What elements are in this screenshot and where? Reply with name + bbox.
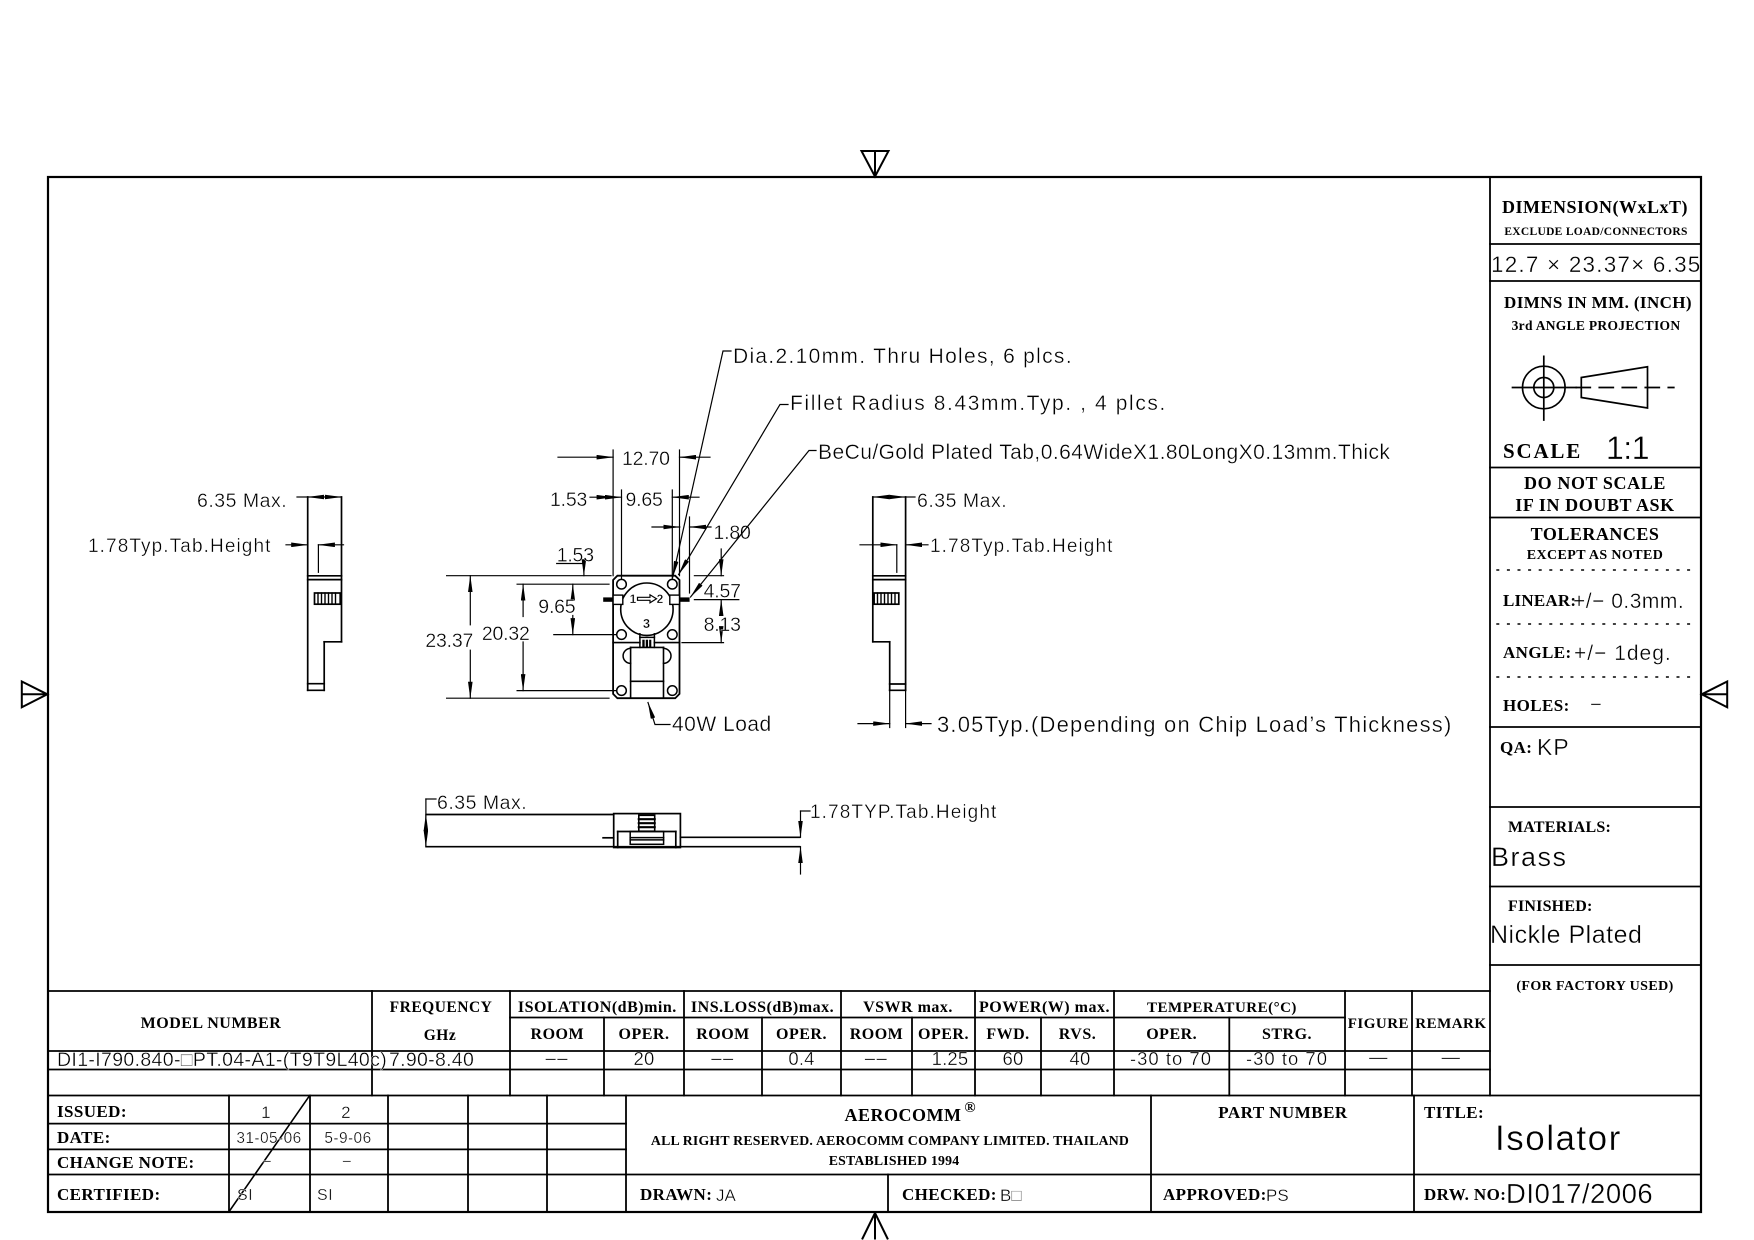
svg-text:INS.LOSS(dB)max.: INS.LOSS(dB)max. — [691, 999, 834, 1016]
svg-text:5-9-06: 5-9-06 — [324, 1130, 371, 1147]
leader 40W load — [648, 703, 670, 725]
mounting hole bottom-left — [617, 686, 627, 696]
dim 1.53 elbow — [557, 564, 584, 576]
svg-text:PART NUMBER: PART NUMBER — [1218, 1103, 1348, 1122]
materials row — [1491, 819, 1611, 872]
left view body outline — [308, 497, 342, 690]
svg-text:Nickle Plated: Nickle Plated — [1490, 921, 1642, 949]
bottom view chip stack — [630, 832, 663, 845]
svg-text:1.78TYP.Tab.Height: 1.78TYP.Tab.Height — [810, 802, 997, 823]
svg-text:ROOM: ROOM — [696, 1026, 750, 1043]
svg-text:7.90-8.40: 7.90-8.40 — [389, 1049, 474, 1071]
svg-text:ESTABLISHED 1994: ESTABLISHED 1994 — [829, 1153, 960, 1168]
part number / title texts — [1163, 1103, 1653, 1209]
ext lines above front view — [613, 450, 689, 593]
spec table grid — [48, 991, 1490, 1096]
load plate right ear fillet — [664, 648, 672, 663]
svg-text:SI: SI — [317, 1187, 333, 1204]
3rd angle projection symbol — [1513, 356, 1674, 420]
svg-text:AEROCOMM: AEROCOMM — [845, 1105, 962, 1125]
dim 20.32 — [522, 584, 524, 690]
svg-text:1.78Typ.Tab.Height: 1.78Typ.Tab.Height — [88, 536, 272, 557]
svg-text:Dia.2.10mm. Thru Holes, 6: Dia.2.10mm. Thru Holes, 6 plcs. — [733, 345, 1073, 368]
svg-text:1.53: 1.53 — [557, 545, 594, 567]
svg-text:IF IN DOUBT ASK: IF IN DOUBT ASK — [1515, 495, 1675, 515]
svg-text:OPER.: OPER. — [918, 1026, 969, 1043]
dim 1.53 / 9.65 top chain — [590, 496, 699, 498]
svg-text:STRG.: STRG. — [1262, 1026, 1312, 1043]
svg-text:APPROVED:: APPROVED: — [1163, 1185, 1267, 1204]
mounting hole mid-right — [668, 630, 678, 640]
svg-text:LINEAR:: LINEAR: — [1503, 591, 1576, 610]
bottom view dim 1.78 tab height — [801, 811, 811, 874]
svg-text:DIMENSION(WxLxT): DIMENSION(WxLxT) — [1502, 197, 1688, 218]
bottom view body lines — [426, 814, 799, 848]
svg-text:2: 2 — [657, 592, 664, 606]
right view chip load extension lines — [890, 690, 906, 727]
tolerances block — [1497, 524, 1697, 716]
finished row — [1490, 898, 1642, 949]
load plate left ear fillet — [623, 648, 630, 663]
svg-text:−: − — [1590, 694, 1602, 716]
right view body outline — [873, 497, 906, 690]
svg-text:23.37: 23.37 — [425, 630, 473, 652]
svg-text:9.65: 9.65 — [626, 489, 664, 511]
svg-text:EXCLUDE LOAD/CONNECTORS: EXCLUDE LOAD/CONNECTORS — [1504, 226, 1687, 238]
left ext lines of front view — [447, 576, 616, 699]
body mid line — [613, 642, 679, 644]
svg-text:3.05Typ.(Depending on Chip: 3.05Typ.(Depending on Chip Load’s Thickn… — [937, 712, 1453, 737]
svg-text:MATERIALS:: MATERIALS: — [1508, 819, 1611, 836]
svg-text:1.53: 1.53 — [550, 489, 587, 511]
svg-text:1.25: 1.25 — [932, 1048, 969, 1069]
mounting hole bottom-right — [668, 686, 678, 696]
svg-text:KP: KP — [1537, 734, 1570, 760]
load neck — [640, 634, 655, 648]
svg-text:Brass: Brass — [1491, 842, 1568, 872]
svg-text:BeCu/Gold Plated Tab,0.64WideX: BeCu/Gold Plated Tab,0.64WideX1.80LongX0… — [818, 441, 1390, 464]
mounting hole top-right — [668, 579, 678, 589]
svg-text:TITLE:: TITLE: — [1424, 1103, 1484, 1122]
svg-text:12.70: 12.70 — [622, 448, 670, 470]
svg-text:REMARK: REMARK — [1415, 1016, 1486, 1032]
svg-text:12.7 × 23.37× 6.35: 12.7 × 23.37× 6.35 — [1491, 252, 1702, 277]
svg-text:—: — — [1442, 1046, 1461, 1067]
port labels 1 2 3 with arrow — [630, 592, 664, 631]
load tab black — [642, 640, 651, 648]
svg-text:-30 to 70: -30 to 70 — [1246, 1048, 1328, 1069]
svg-text:3: 3 — [643, 616, 650, 631]
leader BeCu gold plated tab — [691, 451, 817, 598]
svg-text:(FOR FACTORY USED): (FOR FACTORY USED) — [1516, 979, 1673, 994]
right BeCu tab — [680, 597, 690, 601]
QA row — [1500, 734, 1570, 760]
dim 9.65 vertical — [572, 584, 574, 634]
svg-text:ANGLE:: ANGLE: — [1503, 643, 1572, 662]
svg-text:SCALE: SCALE — [1503, 439, 1582, 463]
dim 8.13 — [720, 633, 722, 643]
junction circle — [621, 583, 673, 635]
centering mark bottom — [863, 1213, 888, 1239]
load plate — [631, 647, 664, 698]
centering mark top — [862, 151, 889, 177]
svg-text:DI1-I790.840-□PT.04-A1-(T9T9L4: DI1-I790.840-□PT.04-A1-(T9T9L40c) — [57, 1049, 387, 1071]
sheet border frame — [48, 177, 1701, 1212]
left tab pocket — [613, 595, 623, 604]
bottom view dim 6.35 Max — [426, 799, 436, 847]
svg-text:20: 20 — [634, 1048, 655, 1069]
right view tab hatch — [874, 593, 899, 604]
svg-text:DI017/2006: DI017/2006 — [1506, 1178, 1653, 1209]
svg-text:OPER.: OPER. — [776, 1026, 827, 1043]
svg-text:––: –– — [546, 1047, 570, 1068]
revision diagonal — [230, 1097, 310, 1212]
svg-text:—: — — [1369, 1046, 1388, 1067]
dim 23.37 — [469, 576, 471, 699]
svg-text:TEMPERATURE(°C): TEMPERATURE(°C) — [1147, 1000, 1297, 1016]
svg-text:––: –– — [865, 1047, 889, 1068]
svg-text:40: 40 — [1070, 1048, 1091, 1069]
centering mark left — [22, 682, 48, 708]
svg-text:HOLES:: HOLES: — [1503, 696, 1570, 715]
svg-text:3rd ANGLE PROJECTION: 3rd ANGLE PROJECTION — [1512, 318, 1681, 333]
svg-text:MODEL NUMBER: MODEL NUMBER — [141, 1015, 282, 1032]
svg-text:––: –– — [711, 1047, 735, 1068]
svg-text:DATE:: DATE: — [57, 1128, 111, 1147]
svg-text:6.35 Max.: 6.35 Max. — [917, 490, 1007, 512]
svg-text:-30 to 70: -30 to 70 — [1130, 1048, 1212, 1069]
svg-text:20.32: 20.32 — [482, 623, 530, 645]
right ext lines 4.57 / 8.13 — [682, 576, 739, 643]
svg-text:8.13: 8.13 — [704, 614, 741, 636]
svg-text:−: − — [262, 1152, 272, 1171]
svg-text:®: ® — [964, 1100, 975, 1116]
svg-text:ALL RIGHT RESERVED. AEROCOM: ALL RIGHT RESERVED. AEROCOMM COMPANY LIM… — [651, 1133, 1129, 1148]
leader fillet radius — [679, 405, 788, 575]
svg-text:Isolator: Isolator — [1495, 1119, 1622, 1158]
svg-text:DIMNS IN MM. (INCH): DIMNS IN MM. (INCH) — [1504, 293, 1692, 312]
svg-text:1: 1 — [630, 592, 637, 606]
svg-text:POWER(W) max.: POWER(W) max. — [979, 999, 1110, 1016]
svg-text:CERTIFIED:: CERTIFIED: — [57, 1185, 161, 1204]
bottom block grid — [48, 1096, 1701, 1213]
svg-text:FWD.: FWD. — [986, 1026, 1029, 1043]
svg-text:2: 2 — [341, 1103, 351, 1122]
svg-text:GHz: GHz — [424, 1027, 457, 1044]
svg-text:FIGURE: FIGURE — [1348, 1016, 1409, 1032]
svg-text:+/− 1deg.: +/− 1deg. — [1574, 642, 1672, 665]
svg-text:6.35 Max.: 6.35 Max. — [197, 490, 287, 512]
svg-text:FREQUENCY: FREQUENCY — [390, 999, 493, 1016]
svg-text:31-05-06: 31-05-06 — [236, 1130, 301, 1147]
svg-text:−: − — [342, 1152, 352, 1171]
left BeCu tab — [603, 597, 613, 601]
svg-text:9.65: 9.65 — [538, 596, 576, 618]
svg-text:ISSUED:: ISSUED: — [57, 1102, 127, 1121]
for factory used row — [1516, 979, 1673, 994]
svg-text:SI: SI — [237, 1187, 253, 1204]
bottom block left texts — [57, 1102, 372, 1204]
svg-text:OPER.: OPER. — [619, 1026, 670, 1043]
scale row — [1503, 430, 1649, 466]
svg-text:RVS.: RVS. — [1059, 1026, 1096, 1043]
svg-text:0.4: 0.4 — [788, 1048, 814, 1069]
right panel header DIMENSION — [1491, 197, 1702, 277]
mounting hole mid-left — [617, 630, 627, 640]
svg-text:4.57: 4.57 — [704, 581, 741, 603]
left view tab hatch — [315, 593, 341, 604]
svg-text:FINISHED:: FINISHED: — [1508, 898, 1592, 915]
leader Dia 2.10 thru holes — [673, 351, 731, 578]
spec table headers — [141, 999, 1487, 1044]
svg-text:EXCEPT AS NOTED: EXCEPT AS NOTED — [1527, 548, 1663, 563]
svg-text:1:1: 1:1 — [1606, 430, 1649, 466]
dim 1.80 tab — [652, 526, 711, 528]
do not scale row — [1515, 473, 1675, 515]
right panel DIMNS row — [1504, 293, 1692, 333]
dim 4.57 — [720, 549, 722, 611]
svg-text:1.78Typ.Tab.Height: 1.78Typ.Tab.Height — [930, 536, 1114, 557]
svg-text:6.35 Max.: 6.35 Max. — [437, 792, 527, 814]
svg-text:CHECKED:: CHECKED: — [902, 1185, 997, 1204]
bottom view tab hatch — [639, 815, 655, 831]
svg-text:QA:: QA: — [1500, 738, 1532, 757]
svg-text:DRAWN:: DRAWN: — [640, 1185, 712, 1204]
svg-text:ROOM: ROOM — [531, 1026, 585, 1043]
right tab pocket — [670, 595, 680, 604]
spec table data row — [57, 1046, 1461, 1071]
svg-text:TOLERANCES: TOLERANCES — [1531, 524, 1660, 544]
svg-text:1: 1 — [261, 1103, 271, 1122]
front view body outline (chamfered) — [613, 576, 679, 699]
svg-text:DO NOT SCALE: DO NOT SCALE — [1524, 473, 1666, 493]
right view dim 1.78 tab height — [860, 545, 928, 573]
svg-text:ISOLATION(dB)min.: ISOLATION(dB)min. — [518, 999, 677, 1016]
svg-text:VSWR max.: VSWR max. — [863, 999, 953, 1016]
right view dim 3.05 typ — [858, 723, 931, 725]
svg-text:OPER.: OPER. — [1146, 1026, 1197, 1043]
mounting hole top-left — [617, 579, 627, 589]
svg-text:ROOM: ROOM — [850, 1026, 904, 1043]
aerocomm block texts — [640, 1100, 1129, 1205]
svg-text:JA: JA — [716, 1186, 737, 1205]
right view dim 6.35 Max — [873, 496, 915, 498]
svg-text:+/− 0.3mm.: +/− 0.3mm. — [1573, 590, 1684, 613]
svg-text:DRW. NO:: DRW. NO: — [1424, 1185, 1506, 1204]
right panel grid lines — [48, 177, 1701, 1096]
svg-text:CHANGE NOTE:: CHANGE NOTE: — [57, 1153, 195, 1172]
left view dim 6.35 Max — [297, 496, 342, 498]
svg-text:PS: PS — [1266, 1186, 1289, 1205]
left view dim 1.78 tab height — [286, 545, 344, 573]
svg-text:1.80: 1.80 — [714, 522, 752, 544]
svg-text:Fillet Radius 8.43mm.Typ. ,: Fillet Radius 8.43mm.Typ. , 4 plcs. — [790, 392, 1167, 415]
svg-text:B□: B□ — [1000, 1186, 1022, 1205]
svg-text:60: 60 — [1003, 1048, 1024, 1069]
dim 12.70 — [558, 456, 710, 458]
svg-text:40W Load: 40W Load — [672, 713, 772, 736]
centering mark right — [1702, 682, 1728, 708]
